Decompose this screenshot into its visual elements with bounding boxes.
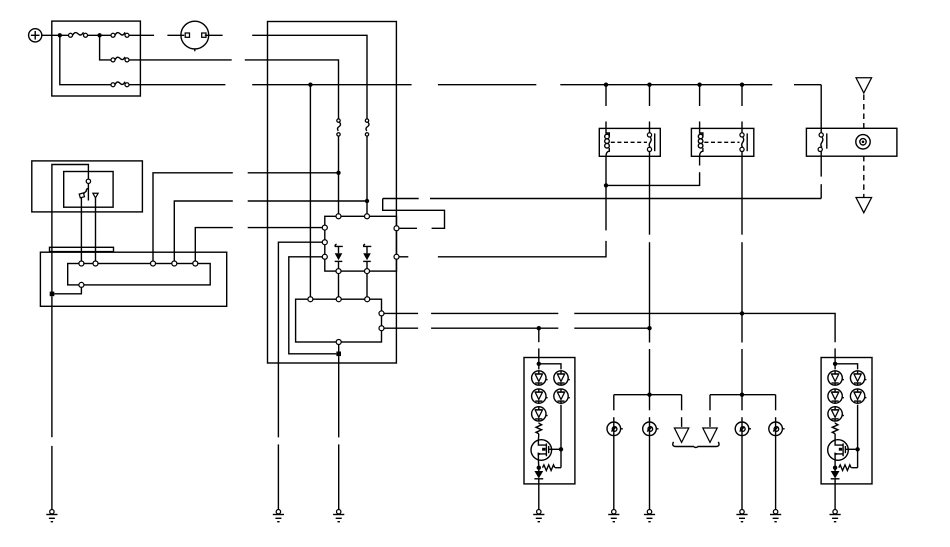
wire LED col2 down (857, 405, 859, 468)
switch contact S2b in main box (365, 119, 369, 136)
wire bracket to left side arrow (681, 395, 683, 411)
LED r3 (828, 407, 844, 421)
wire bracket to right side arrow (709, 395, 711, 411)
wire flasher bottom pin to ground junction (338, 345, 340, 354)
node LED right input (833, 362, 837, 366)
wire switch left contact down (80, 198, 82, 261)
wire bracket to bulb L1 (613, 395, 615, 411)
LED r2 (828, 389, 844, 403)
node right lamps feed (740, 311, 744, 315)
battery B1 (29, 29, 42, 42)
wire transistor drain to col2 (552, 448, 561, 450)
node row3 at relay2 coil (697, 83, 701, 87)
resistor gate right box (839, 465, 851, 471)
wire row1 fuse box to ignition switch (129, 34, 154, 36)
wire to left LED box (538, 328, 540, 342)
flasher unit box U3 (296, 299, 382, 342)
wire row2 fuse box to main box (129, 59, 232, 61)
bulb L1 front turn left (607, 422, 623, 436)
LED r5 (850, 389, 866, 403)
node col2 drain (559, 447, 563, 451)
turn signal switch inner box (64, 172, 113, 208)
strip pins (79, 261, 84, 266)
resistor gate left box (543, 465, 555, 471)
ground G6 (644, 510, 655, 522)
right lamp group bracket (710, 394, 776, 396)
node col2 drain (855, 447, 859, 451)
wire LED col2 down (560, 405, 562, 468)
relay R1 contact (647, 128, 654, 156)
diode D1 (335, 244, 343, 268)
LED l5 (554, 389, 570, 403)
wire row3 to relay1 contact (649, 85, 651, 106)
side arrow left (674, 428, 688, 442)
wire input to columns (538, 358, 540, 370)
wire relay right pin1 jog to lamp check line (399, 227, 417, 229)
LED l3 (532, 407, 548, 421)
main integrated control box (268, 22, 397, 364)
side arrow right (703, 428, 717, 442)
relay R1 coil (605, 128, 610, 156)
node LED left input (537, 362, 541, 366)
wire F1 to F2 (88, 34, 112, 36)
wire relay bottom pins to flasher (338, 274, 340, 297)
wire flasher line2 to left lamps (384, 327, 418, 329)
turn signal switch SW2 (79, 179, 98, 200)
bulb R2 rear turn right (769, 422, 785, 436)
wire relay2 coil to node C (699, 156, 701, 165)
wire LED right box to ground (834, 484, 836, 510)
ground G9 (830, 510, 841, 522)
wire bottom pin to junction (54, 287, 81, 293)
ground G2 (273, 510, 284, 522)
left lamp group bracket (614, 394, 682, 396)
U4 contact (818, 128, 827, 156)
wire row1 ignition switch to main box (205, 34, 223, 36)
wire relay pin3 to junction (289, 257, 337, 354)
ground G7 (736, 510, 747, 522)
fuse F3 (111, 57, 129, 62)
wire LED left box to ground (538, 484, 540, 510)
junction square switch ground (50, 292, 55, 297)
resistor right box (832, 423, 838, 433)
wire U4 contact to lamp check line (820, 156, 822, 177)
wire down to row3 (60, 35, 111, 84)
wire row3 to relay1 coil (605, 85, 607, 106)
LED l4 (554, 371, 570, 385)
wire transistor to diode node (537, 460, 539, 468)
inner terminal strip (68, 264, 211, 285)
diode D2 (363, 244, 371, 268)
node A turn feed left (336, 171, 340, 175)
wire row3 to relay2 contact (741, 85, 743, 106)
switch contact S2a in main box (337, 119, 341, 136)
transistor Q1 (531, 440, 552, 461)
bulb R1 front turn right (735, 422, 751, 436)
wire S2b to relay pin (366, 136, 368, 214)
wire bracket to bulb R2 (775, 395, 777, 411)
combination switch outer box (32, 161, 143, 212)
wire transistor to diode node (834, 460, 836, 468)
node row3 at relay2 contact (740, 83, 744, 87)
wire battery to fuse box (42, 34, 69, 36)
node left lamps feed (647, 326, 651, 330)
wire bracket to bulb L2 (649, 395, 651, 411)
U4 indicator lamp (856, 135, 870, 149)
wire S2a to relay pin (338, 136, 340, 214)
wire lamp check line (383, 198, 419, 200)
LED r1 (828, 371, 844, 385)
wire switch common to junction (52, 165, 89, 294)
wire relay pin2 to ground lead (278, 242, 322, 437)
wire resistor to transistor (537, 434, 539, 441)
dashed wire arrow to U4 (863, 95, 865, 129)
LED l2 (532, 389, 548, 403)
antenna arrow bottom (856, 198, 872, 213)
underline between side arrows (673, 442, 719, 448)
node B turn feed right (365, 199, 369, 203)
high mount stop / LED unit left box (524, 358, 575, 484)
wire row3 down to flasher (309, 85, 311, 297)
ground G8 (770, 510, 781, 522)
ground G5 (608, 510, 619, 522)
node row3 at relay1 coil (604, 83, 608, 87)
node C coil common (604, 183, 608, 187)
wire bracket to bulb R1 (741, 395, 743, 411)
wire row3 fuse box to right side (129, 84, 225, 86)
transistor Q2 (828, 440, 849, 461)
node on row1 feeding row3 (58, 33, 62, 37)
wire relay1 coil to node C (605, 156, 607, 185)
ground G1 (46, 510, 57, 522)
LED l1 (532, 371, 548, 385)
turn signal relay left R1 box (599, 128, 660, 156)
node right bracket (740, 393, 744, 397)
fuse F1 (69, 32, 88, 37)
diode D3 (534, 468, 543, 484)
fuse F2 (111, 32, 129, 37)
node diode top (537, 466, 541, 470)
high mount stop / LED unit right box (821, 358, 872, 484)
connector bar C1 (50, 247, 114, 251)
wire line C comb switch to relay pin1 (195, 228, 233, 261)
turn signal relay right R2 box (691, 128, 753, 156)
relay R2 contact (740, 128, 747, 156)
wire flasher line1 to right lamps (384, 312, 418, 314)
ground G4 (533, 510, 544, 522)
wire LED col1 to resistor (834, 422, 836, 425)
node diode top (833, 466, 837, 470)
junction square flasher ground (336, 352, 341, 357)
antenna arrow top (856, 78, 872, 93)
LED r4 (850, 371, 866, 385)
resistor left box (536, 423, 542, 433)
wire row3 corner into U4 contact (820, 85, 822, 129)
wire input to columns (834, 358, 836, 370)
wire relay right pin2 to relay coils feed (399, 256, 408, 258)
node left LED box feed (537, 326, 541, 330)
ignition switch SW1 (181, 21, 209, 51)
turn signal relay box U2 (325, 216, 397, 271)
wire transistor drain to col2 (848, 448, 857, 450)
fuse F4 (111, 82, 129, 87)
wire line B comb switch to node B (174, 201, 233, 261)
wire junction to ground (51, 296, 53, 437)
wire LED col1 to resistor (538, 422, 540, 425)
node on row1 feeding row2 (97, 33, 101, 37)
relay R2 coil (698, 128, 703, 156)
combination switch lower box (40, 252, 226, 306)
node row3 to flasher feed (308, 83, 312, 87)
wire resistor to transistor (834, 434, 836, 441)
dashed wire U4 to arrow bottom (863, 156, 865, 198)
wire switch right contact down (95, 198, 97, 261)
bulb L2 rear turn left (643, 422, 659, 436)
wire line A comb switch to node A (153, 173, 233, 261)
node row3 at relay1 contact (647, 83, 651, 87)
wire relay2 contact down to right lamps (741, 156, 743, 234)
diode D4 (831, 468, 840, 484)
relay R1 coil-contact dashed link (611, 141, 647, 143)
relay R2 coil-contact dashed link (704, 141, 739, 143)
node left bracket (647, 393, 651, 397)
wire relay1 contact down to left lamps (649, 156, 651, 234)
fuse box (52, 21, 141, 96)
security indicator box U4 (806, 128, 897, 156)
wire down to row2 (100, 35, 111, 60)
wire row3 to relay2 coil (699, 85, 701, 106)
wire junction to ground (338, 356, 340, 437)
relay pins (336, 214, 341, 219)
ground G3 (333, 510, 344, 522)
flasher pins (308, 297, 313, 302)
